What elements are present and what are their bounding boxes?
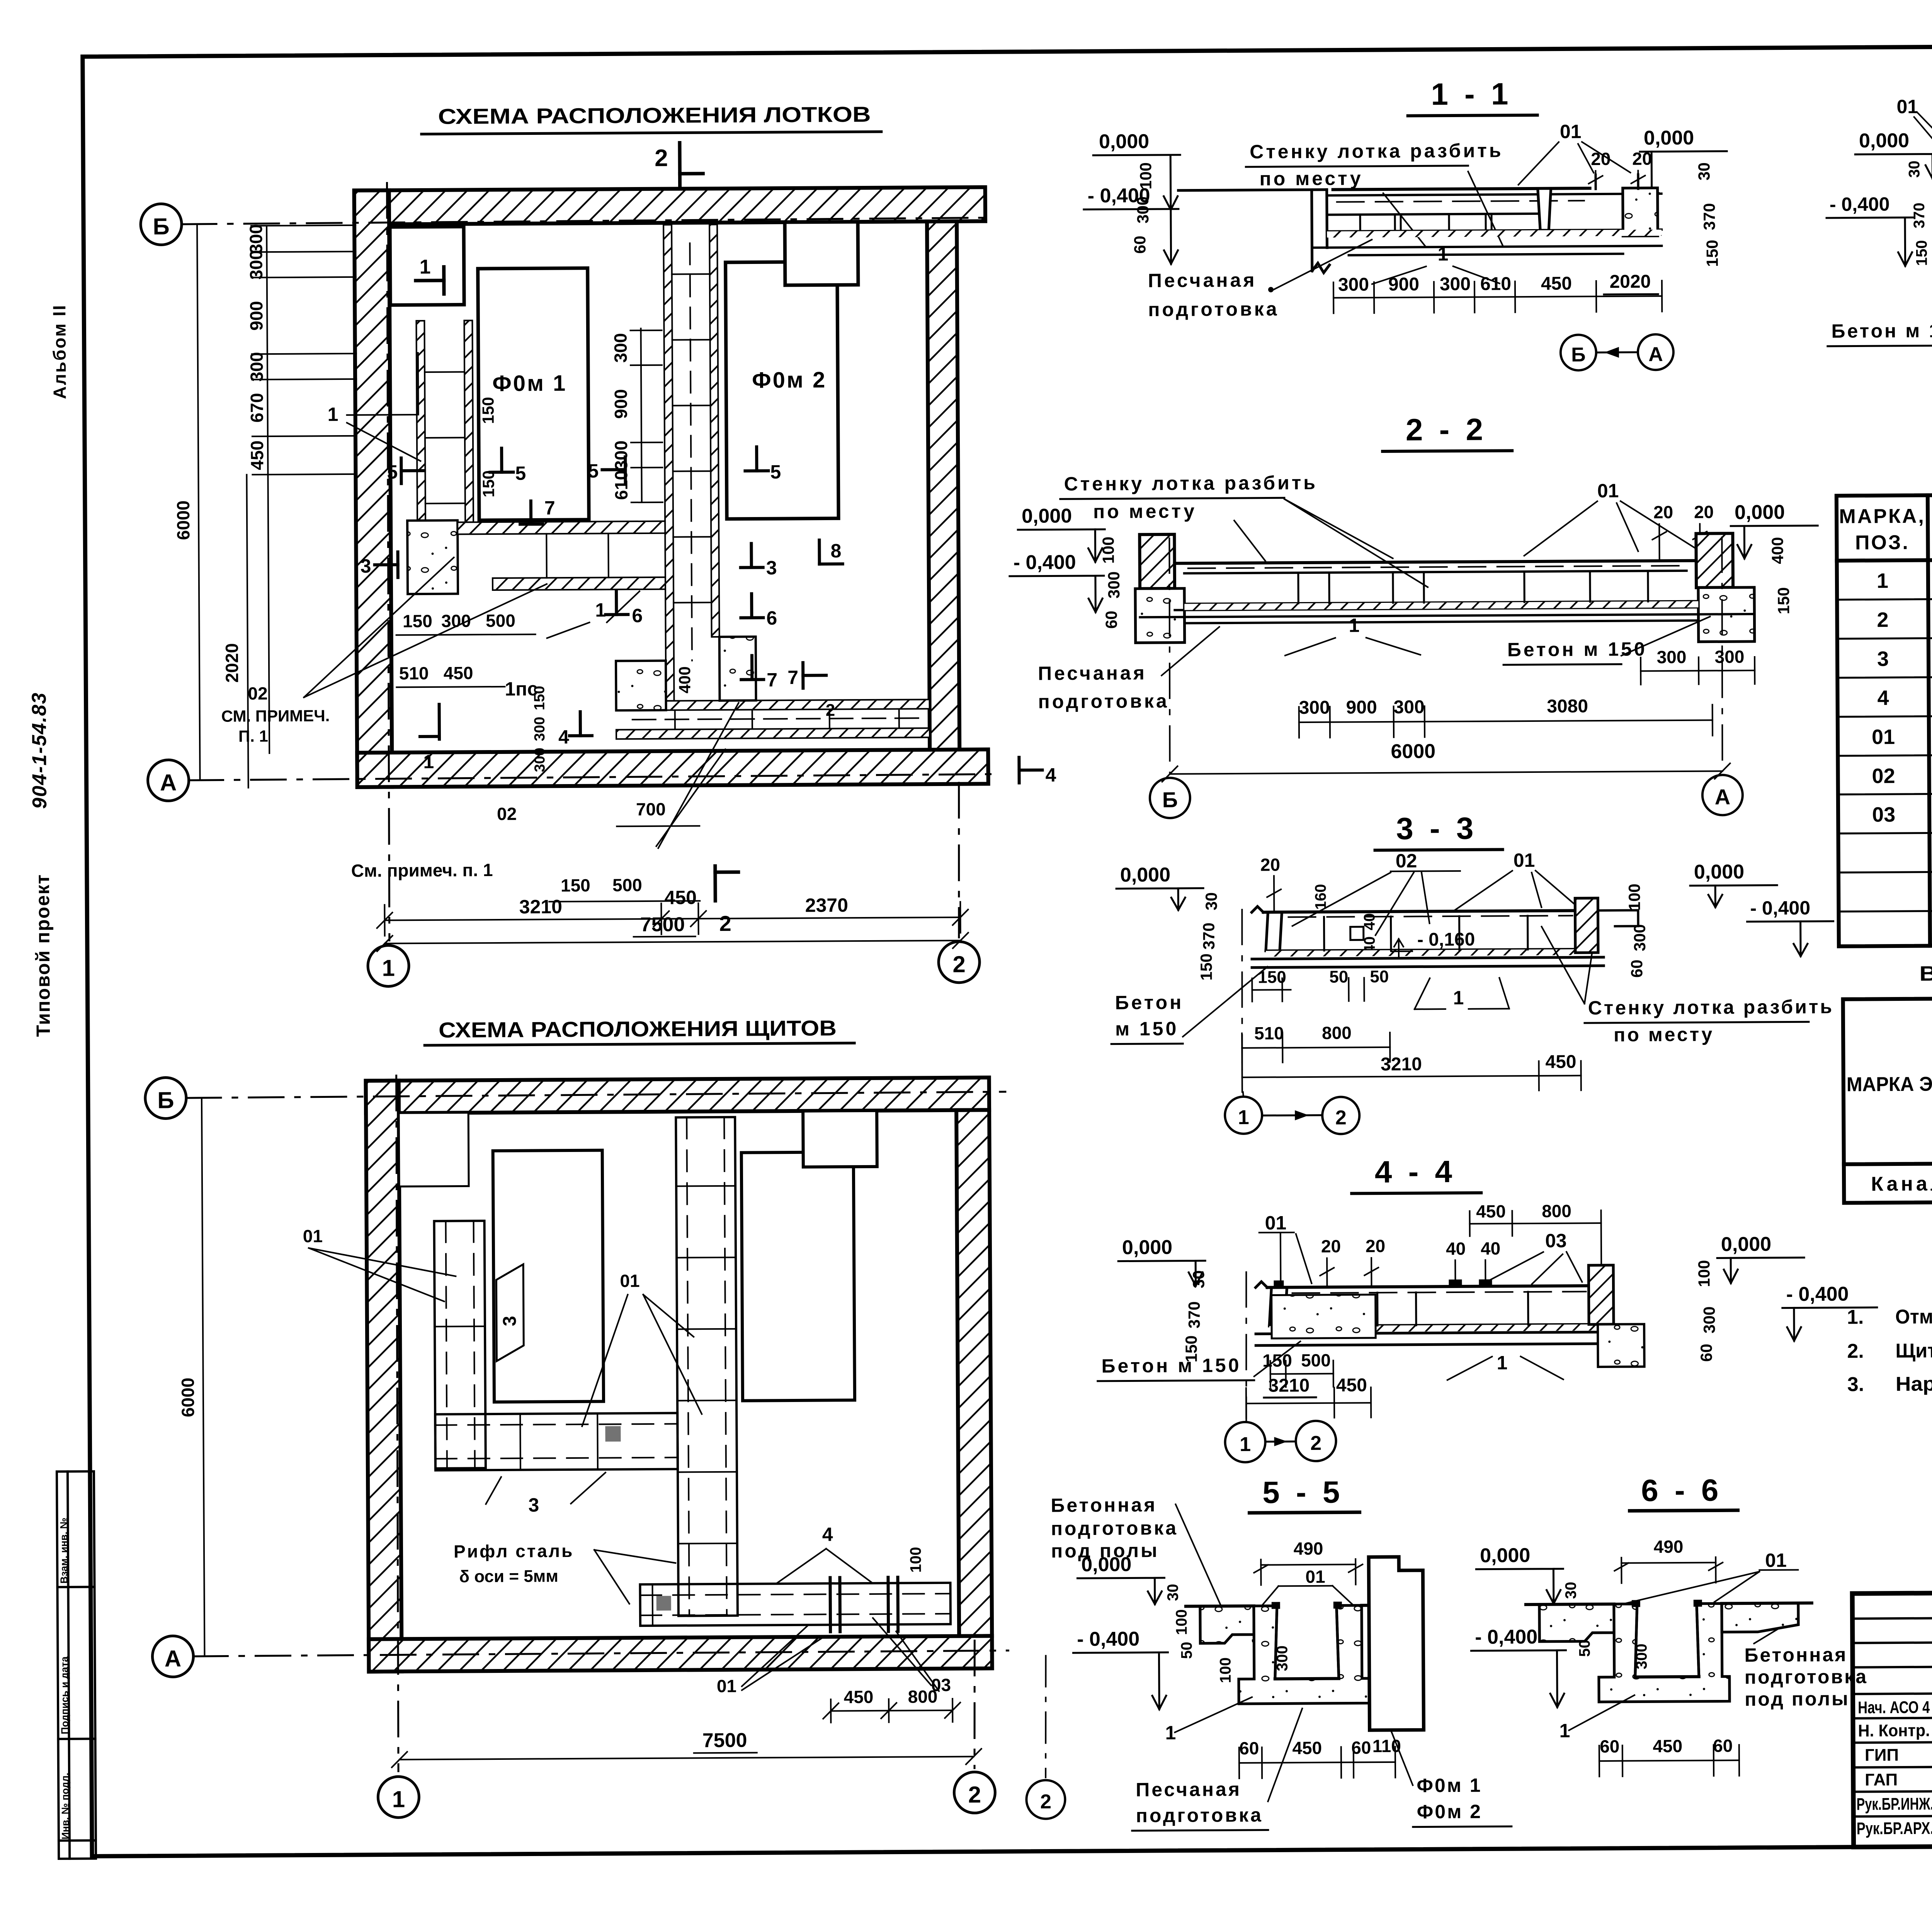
- svg-text:6000: 6000: [173, 500, 194, 540]
- svg-text:60: 60: [1239, 1738, 1259, 1758]
- svg-text:2.: 2.: [1847, 1340, 1864, 1362]
- axis circles: [1243, 1092, 1243, 1097]
- svg-text:2 - 2: 2 - 2: [1406, 412, 1487, 447]
- svg-text:- 0,400: - 0,400: [1014, 551, 1076, 574]
- right lotok wall: [1538, 189, 1551, 230]
- svg-text:Бетонная: Бетонная: [1051, 1494, 1157, 1516]
- left side small dims: [1130, 162, 1155, 254]
- svg-text:02: 02: [497, 804, 517, 824]
- dashed lid lines in bottom channel: [633, 718, 926, 720]
- floor slab left stub: [1179, 190, 1330, 274]
- svg-text:01: 01: [1514, 849, 1535, 871]
- svg-text:Щиты в разрезах условно н: Щиты в разрезах условно не показаны.: [1895, 1338, 1932, 1362]
- svg-text:А: А: [1714, 784, 1730, 809]
- svg-text:400: 400: [1768, 537, 1786, 564]
- svg-text:1: 1: [1437, 243, 1448, 265]
- mid horizontal channel concrete: [407, 521, 458, 594]
- svg-text:ГИП: ГИП: [1865, 1746, 1899, 1764]
- svg-text:370: 370: [1700, 203, 1718, 230]
- svg-text:100: 100: [1173, 1609, 1190, 1635]
- svg-text:П. 1: П. 1: [238, 727, 268, 745]
- svg-text:- 0,400: - 0,400: [1786, 1283, 1849, 1306]
- svg-text:300: 300: [611, 441, 631, 470]
- section flag 1 in niche: [416, 279, 444, 282]
- right wall column: [1696, 533, 1733, 587]
- svg-text:1: 1: [392, 1786, 405, 1812]
- svg-text:610: 610: [1480, 274, 1511, 294]
- axis B circle: [145, 1077, 187, 1119]
- svg-text:450: 450: [1653, 1736, 1682, 1756]
- svg-text:Ф0м 1: Ф0м 1: [1417, 1775, 1482, 1797]
- dashed accent lines into channel from top: [690, 243, 692, 660]
- svg-text:02: 02: [1396, 850, 1417, 872]
- outer wall top band: [354, 187, 985, 225]
- svg-text:300: 300: [1393, 697, 1424, 717]
- svg-text:450: 450: [1541, 273, 1572, 294]
- svg-text:А: А: [160, 769, 177, 795]
- axis 1 vertical: [395, 1075, 400, 1771]
- U channel: [1599, 1603, 1730, 1702]
- svg-text:- 0,400: - 0,400: [1475, 1626, 1537, 1649]
- svg-text:0,000: 0,000: [1099, 130, 1149, 153]
- svg-text:Ф0м 2: Ф0м 2: [752, 368, 827, 393]
- svg-text:Канал N 2: Канал N 2: [1871, 1172, 1932, 1196]
- svg-text:20: 20: [1321, 1236, 1341, 1256]
- svg-text:Б: Б: [1162, 788, 1178, 812]
- niche top right: [803, 1111, 877, 1167]
- svg-text:Бетон м 150: Бетон м 150: [1831, 320, 1932, 342]
- bottom channel right: [616, 699, 930, 739]
- svg-text:300: 300: [532, 748, 548, 772]
- svg-text:8: 8: [830, 540, 841, 561]
- svg-text:400: 400: [675, 666, 694, 693]
- drawing: [1255, 1280, 1598, 1346]
- left margin vertical captions: [26, 304, 96, 1859]
- svg-text:1: 1: [1238, 1106, 1249, 1129]
- svg-text:100: 100: [1136, 162, 1155, 189]
- section flags inside plan: [374, 446, 1043, 786]
- svg-text:150: 150: [1774, 587, 1793, 614]
- svg-text:3210: 3210: [1381, 1054, 1422, 1075]
- svg-text:450: 450: [247, 441, 267, 470]
- niche top-left: [390, 226, 464, 305]
- U channel: [1238, 1605, 1369, 1704]
- svg-text:5: 5: [515, 463, 526, 484]
- svg-text:6000: 6000: [1391, 740, 1435, 763]
- svg-text:6000: 6000: [178, 1378, 198, 1417]
- svg-text:01: 01: [303, 1226, 323, 1246]
- svg-text:150: 150: [1197, 953, 1215, 980]
- svg-text:Ведомость расхода стали на: Ведомость расхода стали на элемент, кг: [1919, 960, 1932, 985]
- svg-text:450: 450: [1545, 1051, 1576, 1072]
- svg-text:6: 6: [632, 605, 643, 626]
- svg-text:20: 20: [1653, 502, 1673, 522]
- embed corners: [1632, 1600, 1640, 1607]
- svg-text:Наружные поверхности лотков: Наружные поверхности лотков обмазать гор…: [1896, 1369, 1932, 1395]
- embeds: [1449, 1279, 1462, 1287]
- axis A dash-dot: [193, 1650, 1008, 1656]
- outer wall bottom band: [369, 1636, 992, 1671]
- svg-text:2: 2: [719, 911, 731, 936]
- svg-text:подготовка: подготовка: [1136, 1804, 1264, 1827]
- svg-text:3: 3: [361, 555, 371, 577]
- left concrete: [1272, 1295, 1376, 1338]
- 7500 dim: [400, 1757, 974, 1760]
- svg-text:450: 450: [1336, 1375, 1367, 1395]
- svg-text:60: 60: [1102, 611, 1120, 629]
- svg-text:150: 150: [531, 686, 548, 711]
- 160 and 40 rotated dims: [1312, 884, 1378, 954]
- rows: mark col: [1871, 569, 1896, 826]
- axis 2 dash-dot: [958, 783, 960, 937]
- svg-text:03: 03: [1545, 1230, 1567, 1252]
- svg-text:Ф0м 2: Ф0м 2: [1417, 1801, 1482, 1823]
- svg-text:300: 300: [611, 333, 631, 363]
- section mark 2 top: [680, 143, 703, 185]
- svg-text:Бетон: Бетон: [1115, 992, 1184, 1014]
- svg-text:ПОЗ.: ПОЗ.: [1855, 531, 1910, 554]
- svg-text:подготовка: подготовка: [1745, 1666, 1868, 1688]
- svg-text:300: 300: [1299, 698, 1330, 718]
- svg-text:Стенку лотка разбить: Стенку лотка разбить: [1588, 996, 1834, 1019]
- svg-text:4: 4: [558, 726, 569, 748]
- equipment FOm2: [726, 262, 838, 519]
- svg-text:- 0,160: - 0,160: [1417, 929, 1475, 950]
- svg-text:5 - 5: 5 - 5: [1262, 1475, 1344, 1510]
- left rotated dims: [1099, 536, 1123, 629]
- svg-text:3: 3: [500, 1316, 520, 1326]
- rotated dims left: [1906, 160, 1932, 266]
- left rotated dims: [1197, 892, 1221, 981]
- M5 embed: [1350, 927, 1364, 940]
- svg-text:МАРКА,: МАРКА,: [1839, 505, 1925, 528]
- joints: [1378, 1292, 1528, 1325]
- svg-text:Рук.БР.ИНЖ.: Рук.БР.ИНЖ.: [1856, 1795, 1932, 1814]
- svg-text:50: 50: [1370, 967, 1389, 986]
- outer wall left band: [366, 1080, 402, 1671]
- axis circles: [1561, 335, 1596, 370]
- svg-text:Песчаная: Песчаная: [1136, 1778, 1242, 1800]
- left wall column: [1139, 534, 1175, 589]
- svg-text:ГАП: ГАП: [1865, 1770, 1898, 1789]
- svg-text:Типовой проект: Типовой проект: [32, 874, 54, 1037]
- svg-text:2: 2: [655, 145, 668, 172]
- svg-text:подготовка: подготовка: [1051, 1517, 1179, 1540]
- svg-text:А: А: [1648, 343, 1663, 366]
- svg-text:1.: 1.: [1847, 1306, 1864, 1328]
- svg-text:под полы: под полы: [1745, 1688, 1850, 1710]
- svg-text:3210: 3210: [1268, 1375, 1310, 1396]
- svg-text:3210: 3210: [519, 896, 563, 918]
- mid horizontal channel: [457, 521, 665, 590]
- svg-text:подготовка: подготовка: [1038, 690, 1169, 713]
- dim chain: [1333, 281, 1662, 313]
- svg-text:м 150: м 150: [1115, 1018, 1179, 1040]
- horizontal shield band: [435, 1413, 678, 1470]
- svg-text:Нач. АСО 4: Нач. АСО 4: [1858, 1698, 1930, 1717]
- svg-text:4: 4: [1877, 686, 1889, 709]
- svg-text:20: 20: [1632, 148, 1652, 168]
- svg-text:300: 300: [1631, 924, 1649, 951]
- bottom dim 7500: [385, 941, 961, 944]
- svg-text:5: 5: [770, 461, 781, 483]
- axis B dash-dot: [182, 218, 989, 224]
- svg-text:510: 510: [1254, 1023, 1284, 1043]
- svg-text:5: 5: [387, 461, 398, 483]
- svg-text:610: 610: [611, 470, 631, 500]
- axis 1 dash-dot: [386, 183, 391, 940]
- svg-text:40: 40: [1446, 1239, 1466, 1259]
- svg-text:03: 03: [1872, 803, 1895, 826]
- outer wall left band: [354, 190, 392, 787]
- svg-text:Песчаная: Песчаная: [1148, 269, 1257, 291]
- svg-text:01: 01: [1560, 121, 1582, 142]
- svg-text:100: 100: [907, 1547, 924, 1573]
- svg-text:30: 30: [1906, 160, 1923, 178]
- svg-text:450: 450: [444, 663, 473, 683]
- svg-text:Ф0м 1: Ф0м 1: [492, 371, 567, 396]
- svg-text:100: 100: [1625, 883, 1643, 910]
- svg-text:0,000: 0,000: [1022, 505, 1072, 527]
- outer wall right band: [927, 221, 959, 750]
- svg-text:01: 01: [620, 1271, 639, 1291]
- embed corners: [1272, 1602, 1280, 1609]
- svg-text:30: 30: [1165, 1584, 1182, 1601]
- svg-text:900: 900: [246, 301, 266, 331]
- svg-text:300: 300: [1105, 571, 1123, 598]
- svg-text:1: 1: [1877, 569, 1888, 592]
- svg-text:900: 900: [611, 389, 631, 419]
- svg-text:Взам. инв. №: Взам. инв. №: [58, 1518, 70, 1584]
- svg-text:300: 300: [1338, 274, 1369, 295]
- svg-text:60: 60: [1628, 960, 1646, 978]
- right concrete: [1598, 1324, 1645, 1367]
- svg-text:300: 300: [1134, 196, 1152, 223]
- outer wall right band: [956, 1110, 992, 1636]
- svg-text:01: 01: [1872, 725, 1895, 749]
- right concrete end: [1623, 188, 1658, 236]
- rotated small dims: [1563, 1581, 1650, 1681]
- svg-text:подготовка: подготовка: [1148, 298, 1279, 320]
- svg-text:- 0,400: - 0,400: [1750, 897, 1810, 919]
- right rotated dims: [1768, 537, 1793, 614]
- svg-text:01: 01: [1597, 480, 1619, 502]
- svg-text:1: 1: [327, 403, 338, 425]
- T junction concrete blocks: [616, 661, 666, 711]
- axis 2 circle: [939, 941, 980, 983]
- bottom shield band: [640, 1577, 951, 1633]
- svg-text:800: 800: [1542, 1201, 1571, 1221]
- svg-text:6 - 6: 6 - 6: [1641, 1473, 1723, 1507]
- equipment FOm1: [478, 268, 589, 520]
- svg-text:- 0,400: - 0,400: [1077, 1628, 1139, 1650]
- right foundation: [1698, 587, 1755, 642]
- signature names: [1856, 1696, 1932, 1838]
- svg-text:01: 01: [1765, 1550, 1787, 1571]
- svg-text:7: 7: [767, 669, 777, 691]
- axis A circle: [152, 1636, 194, 1677]
- svg-text:2: 2: [1040, 1791, 1051, 1813]
- lotok joints: [1360, 214, 1492, 231]
- svg-text:20: 20: [1366, 1236, 1385, 1256]
- svg-text:4: 4: [1045, 764, 1056, 786]
- svg-text:450: 450: [1476, 1201, 1506, 1221]
- svg-text:450: 450: [664, 886, 697, 908]
- svg-text:Б: Б: [157, 1087, 174, 1113]
- spec table grid: [1837, 491, 1932, 946]
- left channel walls: [416, 320, 473, 522]
- svg-text:60: 60: [1600, 1736, 1619, 1756]
- svg-text:30: 30: [1189, 1270, 1207, 1288]
- svg-text:- 0,400: - 0,400: [1830, 193, 1890, 215]
- svg-text:Рифл сталь: Рифл сталь: [454, 1541, 574, 1562]
- outer wall bottom band: [357, 749, 988, 787]
- svg-text:150: 150: [479, 397, 497, 424]
- svg-text:2: 2: [1310, 1432, 1321, 1455]
- svg-text:700: 700: [636, 799, 666, 819]
- svg-text:СХЕМА РАСПОЛОЖЕНИЯ ЩИТОВ: СХЕМА РАСПОЛОЖЕНИЯ ЩИТОВ: [439, 1016, 837, 1042]
- svg-text:СМ. ПРИМЕЧ.: СМ. ПРИМЕЧ.: [221, 706, 330, 725]
- left dim chain: [251, 225, 358, 753]
- svg-text:0,000: 0,000: [1081, 1553, 1131, 1576]
- axis A circle: [148, 760, 189, 801]
- right vertical dim chain (300/900/300/610): [630, 328, 662, 502]
- svg-text:60: 60: [1713, 1735, 1733, 1756]
- lotok joints: [1324, 916, 1527, 951]
- right big wall FOm: [1369, 1557, 1423, 1730]
- svg-text:60: 60: [1131, 236, 1149, 254]
- axis 2 circle: [1045, 1656, 1046, 1778]
- svg-text:Стенку лотка разбить: Стенку лотка разбить: [1250, 140, 1503, 162]
- svg-text:7500: 7500: [640, 913, 685, 936]
- svg-text:Инв. № подл.: Инв. № подл.: [59, 1773, 71, 1839]
- outer wall top band: [366, 1077, 989, 1113]
- svg-text:20: 20: [1260, 854, 1280, 875]
- svg-text:1: 1: [382, 955, 395, 981]
- svg-text:300: 300: [532, 717, 548, 742]
- svg-text:800: 800: [1322, 1023, 1352, 1043]
- svg-text:7: 7: [544, 497, 555, 519]
- svg-text:60: 60: [1697, 1344, 1715, 1362]
- channel body: [1312, 194, 1662, 255]
- svg-text:1 - 1: 1 - 1: [1431, 77, 1512, 111]
- 6000 dim: [202, 1098, 205, 1656]
- svg-text:7: 7: [787, 667, 798, 688]
- left foundation: [1135, 589, 1185, 643]
- svg-text:900: 900: [1388, 274, 1419, 294]
- svg-text:Б: Б: [1571, 344, 1586, 366]
- svg-text:300: 300: [1714, 647, 1744, 667]
- svg-text:01: 01: [1896, 96, 1918, 117]
- bottom-left stamp: [57, 1471, 96, 1858]
- axis A dash-dot: [189, 774, 992, 780]
- svg-text:Н. Контр.: Н. Контр.: [1858, 1721, 1930, 1741]
- svg-text:150: 150: [1262, 1350, 1292, 1370]
- svg-text:2: 2: [826, 701, 835, 720]
- svg-text:40: 40: [1481, 1238, 1500, 1258]
- svg-text:02: 02: [248, 683, 267, 703]
- steel table grid: [1843, 995, 1932, 1203]
- center channel joint ticks: [672, 274, 711, 603]
- svg-text:02: 02: [1872, 764, 1895, 788]
- svg-text:1: 1: [1240, 1433, 1251, 1456]
- svg-text:СХЕМА РАСПОЛОЖЕНИЯ ЛОТКОВ: СХЕМА РАСПОЛОЖЕНИЯ ЛОТКОВ: [438, 102, 871, 129]
- svg-text:6: 6: [766, 607, 777, 629]
- section mark 2 bottom: [713, 866, 717, 901]
- svg-text:490: 490: [1654, 1536, 1684, 1557]
- svg-text:300: 300: [1656, 647, 1686, 667]
- svg-text:450: 450: [844, 1687, 874, 1707]
- svg-text:по месту: по месту: [1259, 167, 1363, 189]
- 2020 dim line: [247, 475, 248, 788]
- svg-text:Б: Б: [153, 213, 169, 239]
- svg-text:150: 150: [1913, 240, 1930, 266]
- svg-text:Отметку оси закладного изде: Отметку оси закладного изделия М-5 приня…: [1895, 1303, 1932, 1328]
- svg-text:1: 1: [419, 256, 430, 278]
- svg-text:Песчаная: Песчаная: [1038, 662, 1147, 684]
- svg-text:1: 1: [595, 599, 606, 621]
- svg-text:300: 300: [246, 224, 266, 254]
- channel long body: [1140, 560, 1755, 623]
- right floor slab: [1722, 1603, 1798, 1632]
- svg-text:0,000: 0,000: [1721, 1233, 1771, 1256]
- steel table texts: [1846, 1003, 1932, 1197]
- svg-text:3: 3: [766, 557, 777, 578]
- svg-text:450: 450: [1292, 1738, 1322, 1758]
- svg-text:30: 30: [1695, 162, 1713, 180]
- svg-text:300: 300: [1700, 1306, 1718, 1333]
- axis B circle: [141, 204, 182, 245]
- svg-text:2: 2: [952, 951, 966, 977]
- svg-text:0,000: 0,000: [1859, 129, 1909, 152]
- dims 60 450 60: [1600, 1735, 1733, 1756]
- left shield stack: [434, 1221, 486, 1468]
- svg-text:150: 150: [1703, 240, 1721, 267]
- svg-text:01: 01: [1305, 1567, 1325, 1587]
- svg-text:50: 50: [1178, 1642, 1195, 1659]
- left floor slab: [1539, 1604, 1614, 1642]
- svg-text:2: 2: [968, 1781, 981, 1807]
- svg-text:670: 670: [247, 393, 267, 423]
- axis 2 vertical: [974, 1641, 975, 1768]
- svg-text:Альбом II: Альбом II: [49, 304, 70, 399]
- niche top left: [399, 1113, 469, 1186]
- small dims near center: [479, 396, 694, 772]
- svg-text:1: 1: [1497, 1352, 1507, 1373]
- svg-text:Бетон м 150: Бетон м 150: [1507, 638, 1647, 660]
- svg-text:3 - 3: 3 - 3: [1396, 811, 1478, 846]
- svg-text:500: 500: [612, 875, 642, 895]
- svg-text:3080: 3080: [1547, 696, 1588, 717]
- 6000 dim line: [197, 224, 200, 780]
- svg-text:2: 2: [1877, 608, 1888, 631]
- svg-text:по месту: по месту: [1614, 1023, 1714, 1045]
- svg-text:370: 370: [1200, 922, 1218, 949]
- svg-text:904-1-54.83: 904-1-54.83: [28, 692, 51, 809]
- svg-text:7500: 7500: [702, 1729, 747, 1752]
- svg-text:0,000: 0,000: [1480, 1544, 1530, 1567]
- svg-text:30: 30: [1563, 1582, 1580, 1599]
- svg-text:0,000: 0,000: [1694, 861, 1744, 883]
- dims 60 450 60 110: [1239, 1736, 1401, 1758]
- svg-text:4 - 4: 4 - 4: [1375, 1154, 1456, 1189]
- axis B dash-dot: [186, 1092, 1005, 1098]
- svg-text:510: 510: [399, 663, 429, 683]
- equipment rect left: [493, 1150, 604, 1402]
- svg-text:500: 500: [1301, 1350, 1331, 1370]
- svg-text:490: 490: [1294, 1538, 1323, 1559]
- right hatched wall: [1588, 1265, 1614, 1324]
